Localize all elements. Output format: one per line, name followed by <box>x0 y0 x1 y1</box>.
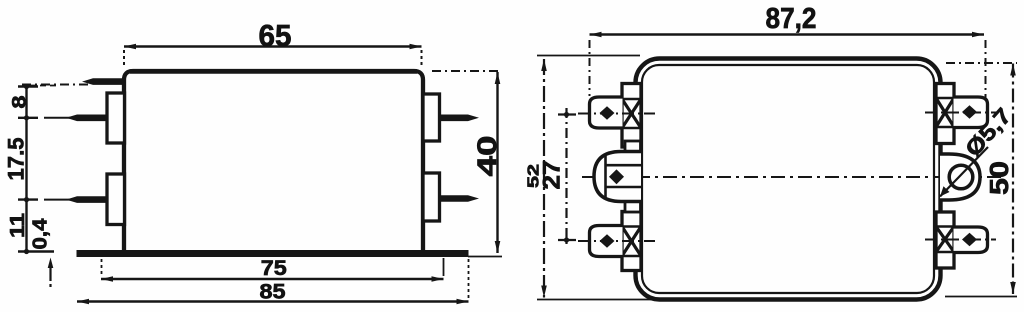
left lead pin upper <box>44 117 78 119</box>
left terminal T3 lug <box>590 226 623 257</box>
svg-text:40: 40 <box>472 136 502 177</box>
right mounting ear <box>940 154 980 200</box>
svg-text:85: 85 <box>260 281 286 304</box>
svg-text:11: 11 <box>7 213 29 238</box>
right terminal T1 diamond <box>962 105 977 118</box>
left lead pin lower <box>44 199 78 201</box>
top-left lead pin <box>82 78 124 85</box>
dimension 87,2 <box>590 32 986 98</box>
right terminal T1 centerline <box>925 112 996 114</box>
svg-text:8: 8 <box>10 96 31 109</box>
left terminal T3 diamond <box>600 234 615 247</box>
left middle D-lug <box>594 152 641 202</box>
hole leader line <box>940 147 988 197</box>
svg-text:27: 27 <box>539 161 566 190</box>
svg-text:0,4: 0,4 <box>30 218 52 250</box>
dimension 85 <box>77 259 469 304</box>
right terminal T1 housing <box>936 84 954 144</box>
filter body outline <box>124 71 423 252</box>
right lead pin lower <box>439 195 479 202</box>
svg-text:50: 50 <box>984 161 1014 195</box>
crimp X lower-left <box>622 227 641 257</box>
right terminal T3 housing <box>936 212 954 268</box>
right terminal block lower <box>423 173 440 221</box>
left middle diamond <box>609 169 624 184</box>
dimension 65 <box>124 44 422 68</box>
svg-text:87,2: 87,2 <box>766 3 817 35</box>
left middle neck lower <box>625 201 641 212</box>
crimp X lower-right <box>936 227 954 253</box>
crimp X upper-right <box>936 98 954 127</box>
dimension 27 <box>558 108 576 246</box>
dimension 75 <box>101 258 444 282</box>
left terminal block lower <box>107 174 125 225</box>
svg-text:75: 75 <box>261 257 287 280</box>
svg-text:65: 65 <box>259 19 292 53</box>
dimension 52 <box>537 56 660 300</box>
dimension 50 <box>945 63 1017 297</box>
left terminal T3 housing <box>622 212 641 271</box>
left middle neck upper <box>625 141 641 152</box>
left terminal T1 diamond <box>600 106 615 119</box>
svg-text:17.5: 17.5 <box>4 138 29 181</box>
crimp X upper-left <box>622 99 641 128</box>
left terminal T1 centerline <box>578 113 655 115</box>
body inner outline <box>642 65 934 293</box>
dimension 0,4 lower arrow <box>48 258 54 290</box>
right terminal T3 lug <box>954 227 988 253</box>
right terminal T3 diamond <box>962 233 977 246</box>
right terminal T3 centerline <box>925 239 996 241</box>
body top edge thick line <box>130 69 417 74</box>
body outer outline <box>636 59 941 300</box>
left terminal T3 centerline <box>578 240 655 242</box>
dimension 40 <box>432 71 502 257</box>
left terminal T1 lug <box>590 97 623 128</box>
right lead pin upper <box>439 115 479 122</box>
left middle D-lug chord <box>604 156 607 197</box>
left terminal T1 housing <box>622 84 641 148</box>
main horizontal centerline <box>582 176 1006 178</box>
left middle D-lug blade band <box>606 164 642 167</box>
right terminal T1 lug <box>954 97 988 128</box>
left terminal block upper <box>107 93 125 143</box>
mounting hole <box>949 165 973 189</box>
mounting base plate <box>77 250 469 257</box>
right terminal block upper <box>423 94 440 141</box>
top-left lead centerline <box>22 84 89 86</box>
left dimension chain line <box>18 84 60 254</box>
